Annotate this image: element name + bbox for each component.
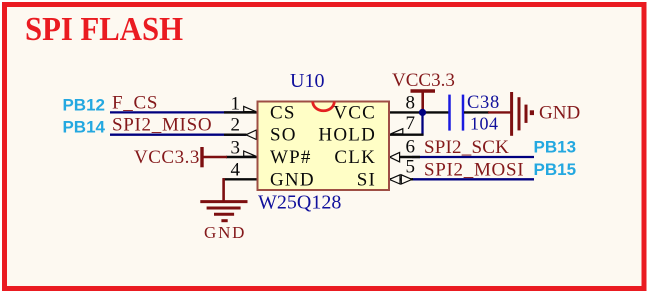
svg-text:C38: C38 <box>467 93 500 113</box>
pin 6 CLK stub <box>390 152 420 162</box>
svg-text:HOLD: HOLD <box>318 125 376 146</box>
svg-text:PB13: PB13 <box>534 138 577 157</box>
svg-text:PB12: PB12 <box>62 95 105 114</box>
svg-text:CLK: CLK <box>334 147 376 168</box>
svg-text:GND: GND <box>204 223 246 242</box>
pin 4 GND stub <box>223 178 258 180</box>
svg-text:SPI2_SCK: SPI2_SCK <box>424 137 509 158</box>
ground GND right (bar style) <box>488 92 534 136</box>
svg-text:SI: SI <box>357 169 376 190</box>
svg-text:PB15: PB15 <box>534 160 577 179</box>
svg-text:VCC3.3: VCC3.3 <box>392 70 455 91</box>
wire SPI2_MOSI (pin 5 net) <box>412 178 534 180</box>
svg-text:SPI2_MOSI: SPI2_MOSI <box>424 159 524 180</box>
svg-text:W25Q128: W25Q128 <box>258 192 341 214</box>
wire SPI2_MISO (pin 2 net) <box>110 134 246 136</box>
svg-text:F_CS: F_CS <box>112 92 158 113</box>
pin 2 SO stub <box>224 130 256 140</box>
pin 3 WP# stub <box>226 151 258 157</box>
svg-text:SPI FLASH: SPI FLASH <box>25 11 183 48</box>
svg-text:CS: CS <box>270 102 296 123</box>
svg-text:SPI2_MISO: SPI2_MISO <box>112 114 212 135</box>
svg-text:WP#: WP# <box>270 147 312 168</box>
svg-text:VCC3.3: VCC3.3 <box>134 147 200 168</box>
pin 1 CS stub <box>224 106 258 112</box>
wire HOLD to VCC node <box>421 112 423 135</box>
svg-text:SO: SO <box>270 125 297 146</box>
svg-text:104: 104 <box>470 114 499 134</box>
pin 8 VCC stub <box>389 111 449 113</box>
svg-text:7: 7 <box>406 113 416 134</box>
svg-text:4: 4 <box>231 160 241 181</box>
pin 5 SI stub (bidirectional) <box>389 175 413 184</box>
ground GND bottom (pin 4) <box>200 178 247 221</box>
power VCC3.3 top (pin 8) <box>411 91 436 112</box>
svg-text:5: 5 <box>406 156 416 177</box>
junction node VCC <box>419 109 426 116</box>
svg-text:2: 2 <box>231 114 241 135</box>
power VCC3.3 left (pin 3) <box>202 147 227 167</box>
svg-text:GND: GND <box>539 102 580 123</box>
wire SPI2_SCK (pin 6 net) <box>412 156 534 158</box>
wire F_CS (pin 1 net) <box>110 111 246 113</box>
svg-text:PB14: PB14 <box>62 117 105 136</box>
svg-text:6: 6 <box>406 137 416 158</box>
svg-text:3: 3 <box>231 137 241 158</box>
svg-text:1: 1 <box>231 93 241 114</box>
svg-text:GND: GND <box>270 169 315 190</box>
IC U10 body <box>258 102 390 191</box>
pin 7 HOLD stub <box>389 129 424 135</box>
svg-text:8: 8 <box>406 92 416 113</box>
svg-text:VCC: VCC <box>333 102 376 123</box>
capacitor C38 <box>450 95 490 131</box>
svg-text:U10: U10 <box>290 70 324 92</box>
